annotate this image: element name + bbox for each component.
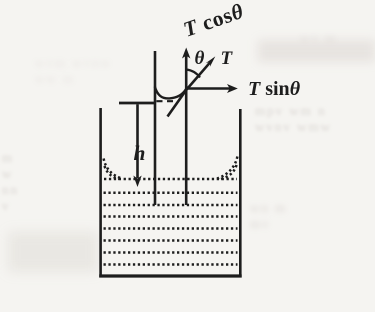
dashed meniscus level line through tube	[157, 100, 179, 102]
meniscus curve inside tube	[155, 87, 186, 99]
svg-text:θ: θ	[195, 48, 205, 69]
h dimension arrowhead	[133, 176, 141, 188]
left wall meniscus dotted curve inner	[105, 166, 120, 179]
faint page bleed-through smudges (decorative)	[255, 103, 375, 135]
svg-text:T: T	[221, 48, 234, 69]
capillary tube left wall	[154, 51, 157, 205]
vector T arrow shaft	[186, 62, 210, 90]
container bottom	[99, 274, 242, 277]
liquid dotted row 5	[104, 227, 238, 230]
h dimension vertical line	[136, 104, 139, 178]
container left wall	[99, 108, 102, 277]
svg-text:T sinθ: T sinθ	[248, 78, 301, 100]
liquid dotted row 8	[104, 263, 238, 266]
right wall meniscus dotted curve inner	[221, 165, 237, 179]
T cos(theta) arrowhead	[182, 48, 190, 59]
capillary tube right wall / T cos(theta) arrow shaft	[185, 55, 188, 205]
liquid dotted row 7	[104, 251, 238, 254]
liquid dotted row 6	[104, 239, 238, 242]
svg-text:h: h	[134, 141, 146, 165]
angle theta arc	[186, 70, 200, 78]
liquid dotted row 2	[104, 192, 238, 195]
h dimension top reference line	[119, 102, 156, 105]
left wall meniscus dotted curve	[104, 159, 122, 179]
vector T arrowhead	[206, 56, 216, 67]
liquid dotted row 3	[104, 204, 238, 207]
liquid dotted row 4	[104, 215, 238, 218]
T tangent extension below surface	[168, 90, 187, 117]
right wall meniscus dotted curve	[217, 157, 237, 179]
liquid surface dotted row 1	[104, 178, 237, 181]
T sin(theta) arrow shaft	[187, 87, 231, 90]
T sin(theta) arrowhead	[227, 84, 238, 93]
container right wall	[239, 109, 242, 277]
svg-text:T cosθ: T cosθ	[180, 0, 246, 42]
